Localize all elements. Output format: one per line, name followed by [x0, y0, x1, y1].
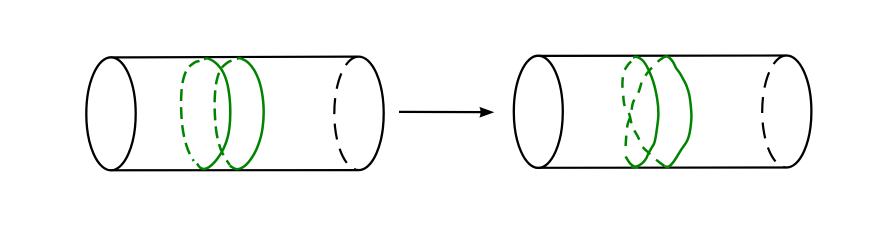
- arrow head: [479, 107, 494, 118]
- right cylinder left end cap: [514, 56, 563, 168]
- green circle 2 back (dashed): [215, 61, 232, 165]
- right cylinder top edge: [538, 54, 786, 57]
- green circle 1 back (dashed): [181, 61, 199, 161]
- right green curve chain4 dashed back dip2 to T1: [622, 59, 664, 166]
- right cylinder right end cap front arc: [787, 56, 812, 168]
- green circle 2 front (solid): [230, 58, 264, 169]
- left cylinder right end cap front arc: [359, 57, 384, 171]
- left cylinder top edge: [111, 55, 359, 58]
- right green curve chain3 solid front T2 to dip2: [663, 56, 692, 166]
- right cylinder right end cap back arc (dashed): [762, 56, 786, 168]
- right green curve chain2 dashed back to T2: [626, 58, 663, 152]
- left cylinder bottom edge: [111, 169, 359, 171]
- left cylinder left end cap: [86, 57, 135, 170]
- right green curve chain2 solid lower: [626, 157, 639, 168]
- right cylinder bottom edge: [538, 166, 786, 169]
- left cylinder right end cap back arc (dashed): [334, 57, 358, 171]
- arrow shaft: [399, 111, 483, 113]
- right green curve chain1 solid front T1 to dip1: [631, 57, 658, 167]
- green circle 1 front (solid): [197, 58, 230, 169]
